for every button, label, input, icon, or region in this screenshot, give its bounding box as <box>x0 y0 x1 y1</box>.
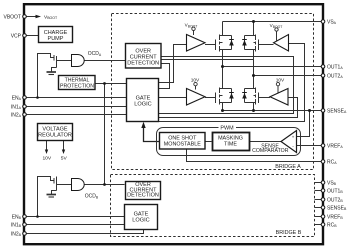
svg-text:DETECTION: DETECTION <box>127 61 159 67</box>
svg-text:SENSEA: SENSEA <box>327 108 347 114</box>
svg-text:IN1B: IN1B <box>11 222 22 228</box>
svg-text:10V: 10V <box>42 156 51 162</box>
svg-text:OUT1B: OUT1B <box>327 188 343 194</box>
svg-text:10V: 10V <box>191 78 200 84</box>
svg-text:VSA: VSA <box>327 19 337 25</box>
svg-text:VBOOT: VBOOT <box>270 23 283 29</box>
svg-text:SENSEB: SENSEB <box>327 205 347 211</box>
svg-text:VBOOT: VBOOT <box>185 23 198 29</box>
svg-text:ENB: ENB <box>12 214 22 220</box>
svg-text:LOGIC: LOGIC <box>134 101 151 107</box>
svg-text:VCP: VCP <box>11 33 22 39</box>
svg-text:VBOOT: VBOOT <box>3 14 21 20</box>
svg-text:LOGIC: LOGIC <box>132 218 149 224</box>
svg-text:OCDA: OCDA <box>88 51 102 57</box>
svg-text:VBOOT: VBOOT <box>44 14 58 20</box>
svg-text:GATE: GATE <box>134 211 149 217</box>
svg-text:OCDB: OCDB <box>85 194 99 200</box>
svg-text:VSB: VSB <box>327 180 337 186</box>
svg-text:IN1A: IN1A <box>11 104 22 110</box>
svg-text:IN2A: IN2A <box>11 112 22 118</box>
svg-text:ENA: ENA <box>12 95 22 101</box>
svg-text:VREFA: VREFA <box>327 143 343 149</box>
svg-text:OUT1A: OUT1A <box>327 64 343 70</box>
svg-text:+: + <box>292 134 295 139</box>
svg-text:VREFB: VREFB <box>327 214 343 220</box>
svg-text:PUMP: PUMP <box>48 36 64 42</box>
svg-text:RCA: RCA <box>327 159 337 165</box>
svg-text:MONOSTABLE: MONOSTABLE <box>164 142 201 148</box>
svg-text:5V: 5V <box>61 156 68 162</box>
svg-text:REGULATOR: REGULATOR <box>38 132 72 138</box>
svg-text:DETECTION: DETECTION <box>127 193 159 199</box>
svg-text:10V: 10V <box>276 78 285 84</box>
svg-text:PWM: PWM <box>220 125 234 131</box>
svg-text:OUT2B: OUT2B <box>327 197 343 203</box>
svg-text:ONE SHOT: ONE SHOT <box>168 135 197 141</box>
svg-text:COMPARATOR: COMPARATOR <box>252 148 289 154</box>
svg-text:OUT2A: OUT2A <box>327 73 343 79</box>
svg-text:BRIDGE B: BRIDGE B <box>276 230 302 236</box>
svg-text:BRIDGE A: BRIDGE A <box>275 164 301 170</box>
svg-text:IN2B: IN2B <box>11 231 22 237</box>
svg-text:PROTECTION: PROTECTION <box>60 83 94 89</box>
svg-text:RCB: RCB <box>327 222 337 228</box>
svg-text:TIME: TIME <box>224 142 237 148</box>
